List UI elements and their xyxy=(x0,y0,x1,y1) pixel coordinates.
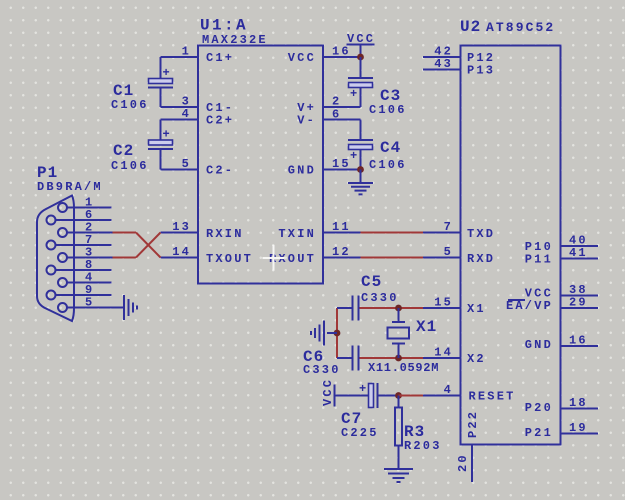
svg-text:P20: P20 xyxy=(525,401,553,415)
svg-text:X1: X1 xyxy=(416,318,437,336)
U1 pin 4 (C2+) xyxy=(161,107,235,128)
U1 pin 5 (C2-) xyxy=(161,157,235,178)
wire pin16 to C3 xyxy=(360,57,362,78)
U2 pin 5 (RXD) xyxy=(423,245,495,266)
ground below R3 xyxy=(384,469,413,482)
svg-text:P21: P21 xyxy=(525,426,553,440)
svg-text:C2+: C2+ xyxy=(206,114,234,128)
U2 pin 18 (P20) xyxy=(525,396,598,415)
U1 pin 11 (TXIN) xyxy=(278,220,360,241)
svg-text:16: 16 xyxy=(332,45,351,59)
ground below C4 xyxy=(348,183,373,194)
U2 pin 40 (P10) xyxy=(525,234,598,255)
U1 pin 12 (RXOUT) xyxy=(269,245,361,266)
wire P1 pin2 red xyxy=(113,233,161,258)
svg-text:U1:A: U1:A xyxy=(200,17,248,35)
U1 pin 1 (C1+) xyxy=(161,45,235,66)
svg-text:16: 16 xyxy=(569,334,588,348)
C6 designator xyxy=(303,348,324,366)
svg-text:14: 14 xyxy=(434,346,453,360)
C7 designator xyxy=(341,410,362,428)
C6 value C330 xyxy=(303,363,341,377)
U2 pin 4 (RESET) xyxy=(423,383,516,404)
cursor crosshair xyxy=(263,245,285,271)
svg-text:41: 41 xyxy=(569,246,588,260)
P1 pin 5 xyxy=(58,296,124,313)
svg-text:X1: X1 xyxy=(467,302,486,316)
capacitor C1 xyxy=(148,66,173,107)
svg-text:TXIN: TXIN xyxy=(278,227,316,241)
C2 value C106 xyxy=(111,159,149,173)
U2 pin 16 (GND) xyxy=(525,334,598,353)
U2 pin 43 (P13) xyxy=(423,57,495,78)
wire pin4 to C2 xyxy=(160,120,162,141)
U1 pin 16 (VCC) xyxy=(288,45,361,66)
svg-text:+: + xyxy=(359,382,368,396)
U1 pin 3 (C1-) xyxy=(161,95,235,116)
svg-text:4: 4 xyxy=(444,383,453,397)
R3 value R203 xyxy=(404,439,442,453)
capacitor C5 xyxy=(339,296,359,321)
node X1 top junction xyxy=(395,305,402,312)
U1 pin 6 (V-) xyxy=(297,108,360,128)
U2 pin 29 (EA/VP) xyxy=(506,296,598,314)
svg-text:12: 12 xyxy=(332,245,351,259)
U1 pin 13 (RXIN) xyxy=(161,220,244,241)
P1 pin 3 xyxy=(58,246,113,263)
svg-text:C106: C106 xyxy=(111,159,149,173)
X1 designator xyxy=(416,318,437,336)
U1 pin 15 (GND) xyxy=(288,157,361,178)
svg-text:C4: C4 xyxy=(380,139,401,157)
svg-text:+: + xyxy=(350,87,359,101)
U2 pin 14 (X2) xyxy=(423,346,486,367)
svg-text:20: 20 xyxy=(456,453,470,472)
svg-text:X2: X2 xyxy=(467,352,486,366)
svg-text:X11.0592M: X11.0592M xyxy=(368,361,439,375)
svg-text:C5: C5 xyxy=(361,273,382,291)
power VCC (top, at U1 pin 16) xyxy=(347,32,376,57)
node ground junction xyxy=(334,330,341,337)
U2 pin 38 (VCC) xyxy=(525,283,598,301)
ground at C5/C6 xyxy=(311,321,337,346)
svg-text:C106: C106 xyxy=(111,98,149,112)
svg-text:19: 19 xyxy=(569,421,588,435)
resistor R3 xyxy=(395,396,402,470)
svg-text:18: 18 xyxy=(569,396,588,410)
wire TXD red xyxy=(361,232,424,234)
svg-text:4: 4 xyxy=(182,107,191,121)
ground at P1 pin 5 xyxy=(124,295,137,320)
U2 pin 7 (TXD) xyxy=(423,220,495,241)
svg-text:15: 15 xyxy=(434,296,453,310)
svg-text:C330: C330 xyxy=(303,363,341,377)
svg-text:RXD: RXD xyxy=(467,252,495,266)
svg-text:P22: P22 xyxy=(466,410,480,438)
IC U2 body xyxy=(461,46,561,445)
U2 pin 41 (P11) xyxy=(525,246,598,267)
R3 designator xyxy=(404,423,425,441)
U2 pin 42 (P12) xyxy=(423,45,495,66)
svg-text:5: 5 xyxy=(182,157,191,171)
svg-text:15: 15 xyxy=(332,157,351,171)
svg-text:V-: V- xyxy=(297,114,316,128)
svg-text:RESET: RESET xyxy=(469,390,516,404)
svg-text:RXIN: RXIN xyxy=(206,227,244,241)
capacitor C3 xyxy=(348,78,373,107)
svg-text:VCC: VCC xyxy=(288,51,316,65)
wire C6 to X2 pin red xyxy=(360,357,424,359)
C2 designator xyxy=(113,142,134,160)
op-amp U1 designator xyxy=(200,17,248,35)
svg-text:C225: C225 xyxy=(341,426,379,440)
C1 value C106 xyxy=(111,98,149,112)
wire pin 6 to C4 xyxy=(360,120,362,141)
svg-text:GND: GND xyxy=(525,338,553,352)
svg-text:VCC: VCC xyxy=(321,378,335,406)
svg-text:TXOUT: TXOUT xyxy=(206,252,253,266)
U2 pin 20 (P22, bottom) xyxy=(456,410,480,482)
P1 value DB9RA/M xyxy=(37,180,103,194)
C7 value C225 xyxy=(341,426,379,440)
C4 value C106 xyxy=(369,158,407,172)
svg-text:GND: GND xyxy=(288,164,316,178)
svg-text:EA/VP: EA/VP xyxy=(506,299,553,313)
capacitor C4 xyxy=(348,140,373,170)
wire pin15 to ground xyxy=(360,170,362,184)
P1 pin 7 xyxy=(47,233,112,250)
C4 designator xyxy=(380,139,401,157)
svg-text:2: 2 xyxy=(332,95,341,109)
svg-text:6: 6 xyxy=(332,108,341,122)
svg-text:C106: C106 xyxy=(369,158,407,172)
svg-text:11: 11 xyxy=(332,220,351,234)
svg-text:7: 7 xyxy=(444,220,453,234)
P1 pin 2 xyxy=(58,221,113,238)
svg-text:C2: C2 xyxy=(113,142,134,160)
node VCC/C3 junction xyxy=(357,54,364,61)
capacitor C7 xyxy=(356,382,399,408)
svg-text:C330: C330 xyxy=(361,291,399,305)
P1 pin 1 xyxy=(58,196,112,213)
wire RXD red xyxy=(361,257,424,259)
C3 designator xyxy=(380,87,401,105)
IC U1 body xyxy=(198,46,323,284)
wire C5 left vertical red xyxy=(337,308,339,358)
wire C5 to X1 pin red xyxy=(360,307,424,309)
U2 pin 19 (P21) xyxy=(525,421,598,440)
C5 designator xyxy=(361,273,382,291)
svg-text:C2-: C2- xyxy=(206,164,234,178)
svg-text:1: 1 xyxy=(182,45,191,59)
node C4/pin15 junction xyxy=(357,166,364,173)
svg-text:R203: R203 xyxy=(404,439,442,453)
U1 pin 14 (TXOUT) xyxy=(161,245,254,266)
U1 value MAX232E xyxy=(202,33,268,47)
svg-text:14: 14 xyxy=(172,245,191,259)
svg-text:DB9RA/M: DB9RA/M xyxy=(37,180,103,194)
svg-text:5: 5 xyxy=(85,296,94,310)
node X1 bottom junction xyxy=(395,355,402,362)
P1 shell xyxy=(37,196,74,322)
svg-text:P11: P11 xyxy=(525,253,553,267)
svg-text:C1+: C1+ xyxy=(206,51,234,65)
svg-text:5: 5 xyxy=(444,245,453,259)
P1 pin 6 xyxy=(47,208,112,225)
svg-text:AT89C52: AT89C52 xyxy=(486,20,555,35)
P1 pin 8 xyxy=(47,258,112,275)
svg-text:C106: C106 xyxy=(369,103,407,117)
wire RESET red xyxy=(399,395,424,397)
IC U2 designator xyxy=(460,18,481,36)
wire pin1 to C1 xyxy=(160,57,162,79)
C5 value C330 xyxy=(361,291,399,305)
connector P1 designator xyxy=(37,164,58,182)
svg-text:13: 13 xyxy=(172,220,191,234)
svg-text:+: + xyxy=(350,149,359,163)
crystal X1 xyxy=(388,308,410,358)
svg-text:29: 29 xyxy=(569,296,588,310)
capacitor C6 xyxy=(339,346,359,371)
svg-text:TXD: TXD xyxy=(467,227,495,241)
U2 pin 15 (X1) xyxy=(423,296,486,317)
svg-text:U2: U2 xyxy=(460,18,481,36)
svg-text:P13: P13 xyxy=(467,64,495,78)
svg-text:43: 43 xyxy=(434,57,453,71)
X1 value X11.0592M xyxy=(368,361,439,375)
P1 pin 4 xyxy=(58,271,112,288)
wire P1 pin3 red crossover xyxy=(113,233,161,258)
C1 designator xyxy=(113,82,134,100)
node RESET junction xyxy=(395,392,402,399)
U1 pin 2 (V+) xyxy=(297,95,360,116)
P1 pin 9 xyxy=(47,283,112,300)
power VCC (rotated, at C7) xyxy=(321,378,356,407)
U2 value AT89C52 xyxy=(486,20,555,35)
capacitor C2 xyxy=(148,128,173,170)
C3 value C106 xyxy=(369,103,407,117)
